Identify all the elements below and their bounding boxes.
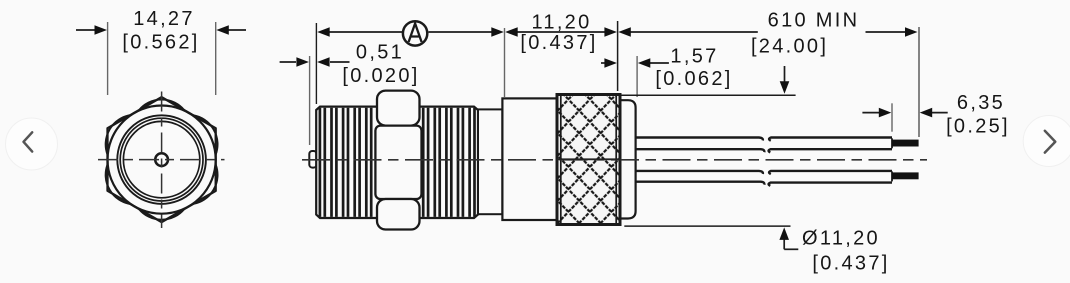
carousel prev button	[6, 118, 58, 170]
neck section	[478, 109, 502, 214]
front view horizontal centerline	[98, 159, 225, 161]
knurled coupling nut	[557, 95, 620, 225]
svg-text:0,51: 0,51	[356, 42, 404, 64]
svg-text:1,57: 1,57	[670, 46, 718, 68]
front view center contact	[155, 153, 168, 166]
svg-text:[0.25]: [0.25]	[946, 116, 1010, 138]
svg-text:11,20: 11,20	[531, 12, 591, 34]
bottom wire	[636, 171, 919, 186]
front view vertical centerline	[161, 92, 163, 229]
svg-text:610 MIN: 610 MIN	[768, 10, 860, 32]
svg-text:14,27: 14,27	[133, 8, 195, 30]
svg-text:[0.020]: [0.020]	[342, 65, 419, 87]
dimension 1,57 [0.062]	[601, 46, 733, 98]
front view hex flange outline	[106, 97, 218, 222]
threads right of nut	[423, 108, 474, 217]
hex nut side view	[375, 91, 421, 230]
front view thread rings	[117, 115, 206, 204]
balloon A	[403, 21, 427, 45]
svg-text:[24.00]: [24.00]	[751, 36, 828, 58]
svg-text:6,35: 6,35	[957, 92, 1005, 114]
svg-text:[0.562]: [0.562]	[122, 32, 199, 54]
svg-text:[0.437]: [0.437]	[520, 32, 597, 54]
side view centerline	[302, 158, 927, 161]
carousel next button	[1023, 116, 1070, 167]
dimension diameter 11,20	[621, 66, 890, 275]
svg-text:[0.062]: [0.062]	[655, 68, 732, 90]
dimension 610 MIN [24.00]	[618, 10, 919, 138]
dimension 14,27 [0.562]	[76, 8, 246, 95]
front view chamfer circle	[108, 106, 216, 214]
rear flange	[620, 100, 636, 218]
svg-text:Ø11,20: Ø11,20	[802, 228, 880, 250]
dimension 0,51 [0.020]	[280, 23, 420, 145]
center contact tip	[309, 151, 316, 168]
threads left of nut	[320, 108, 371, 217]
dimension A thread callout	[317, 27, 504, 97]
threaded body	[316, 107, 478, 218]
svg-text:[0.437]: [0.437]	[812, 253, 889, 275]
cylinder section	[502, 98, 557, 220]
dimension 6,35 [0.25]	[862, 92, 1010, 138]
top wire	[636, 138, 919, 153]
dimension 11,20 [0.437] top	[505, 12, 617, 92]
